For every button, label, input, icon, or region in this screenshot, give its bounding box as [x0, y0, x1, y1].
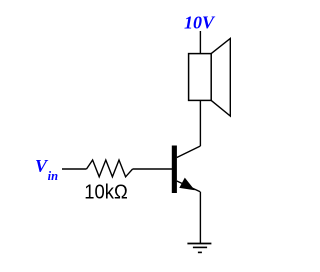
svg-text:10kΩ: 10kΩ: [84, 181, 128, 203]
wire Vin to resistor: [62, 168, 87, 170]
svg-text:10V: 10V: [184, 13, 216, 33]
transistor Q1 emitter arrow: [179, 178, 195, 191]
wire resistor to base: [133, 168, 172, 170]
speaker LS1 body: [189, 54, 212, 101]
wire speaker to collector: [199, 101, 201, 147]
wire emitter to ground: [199, 192, 201, 243]
ground: [187, 244, 211, 253]
transistor Q1 emitter lead: [177, 181, 200, 192]
transistor Q1 base bar: [172, 146, 177, 194]
speaker LS1 horn: [211, 39, 230, 117]
resistor R1 zigzag: [87, 160, 133, 177]
wire 10V to speaker: [199, 31, 201, 54]
svg-text:in: in: [48, 169, 58, 183]
transistor Q1 collector lead: [177, 146, 201, 158]
